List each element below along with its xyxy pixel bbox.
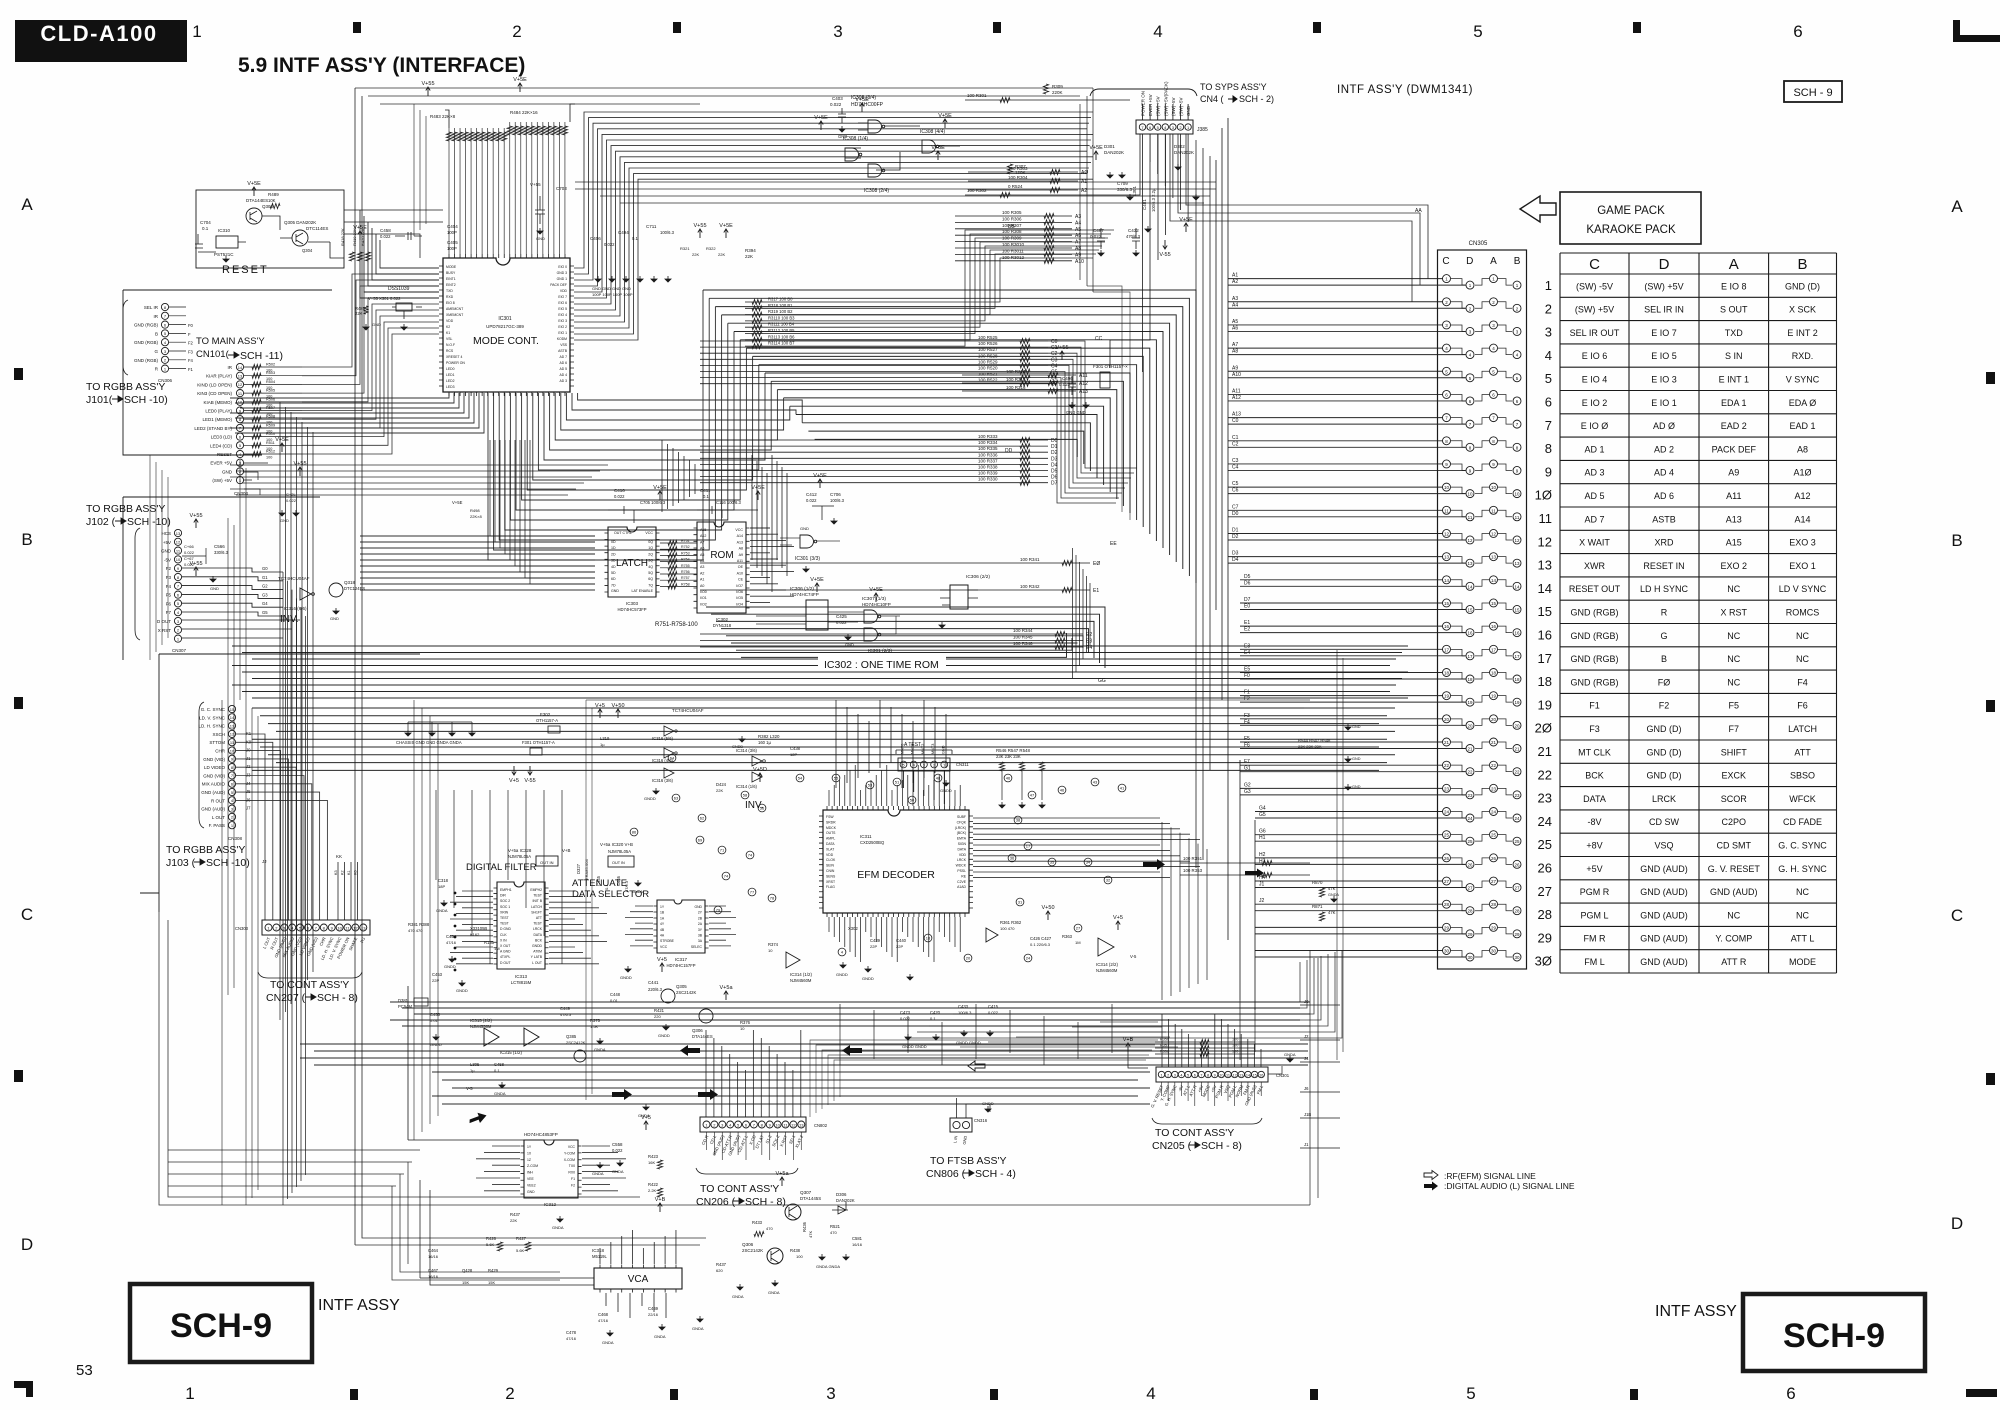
svg-text:10K: 10K bbox=[268, 198, 276, 203]
svg-text:64: 64 bbox=[670, 756, 675, 761]
svg-text:BB: BB bbox=[1008, 224, 1015, 230]
svg-text:0.1: 0.1 bbox=[703, 494, 709, 499]
svg-text:F1: F1 bbox=[571, 1177, 575, 1181]
svg-text:19: 19 bbox=[1444, 694, 1450, 699]
svg-text:22: 22 bbox=[1491, 763, 1497, 768]
svg-text:R423: R423 bbox=[648, 1154, 659, 1159]
svg-text:2: 2 bbox=[1179, 125, 1182, 130]
svg-text:GND (AUD): GND (AUD) bbox=[1640, 934, 1688, 944]
svg-text:V-55: V-55 bbox=[1159, 252, 1170, 258]
svg-text:C2VE: C2VE bbox=[957, 880, 967, 884]
svg-text:J7: J7 bbox=[246, 806, 251, 811]
svg-text:GNDA GNDA: GNDA GNDA bbox=[816, 1264, 840, 1269]
svg-text:21: 21 bbox=[1444, 740, 1450, 745]
CN802 bracket bbox=[696, 1168, 798, 1174]
svg-text:25: 25 bbox=[1514, 839, 1520, 844]
svg-text:AD 3: AD 3 bbox=[559, 379, 567, 383]
svg-text:V+5E: V+5E bbox=[653, 485, 667, 491]
svg-text:V+5E: V+5E bbox=[869, 587, 883, 593]
wire bus feeding CN105 bbox=[1228, 279, 1466, 957]
svg-text:EIO 2: EIO 2 bbox=[558, 325, 567, 329]
long verticals left structure bbox=[355, 88, 706, 1245]
vertical bundle left of IC301 going down bbox=[280, 402, 313, 1020]
CN303 bracket bbox=[258, 972, 362, 978]
svg-text:J2: J2 bbox=[1259, 898, 1265, 904]
svg-text:TO CONT ASS'Y: TO CONT ASS'Y bbox=[270, 979, 349, 991]
svg-text:3: 3 bbox=[1445, 323, 1448, 328]
svg-text:26: 26 bbox=[1514, 862, 1520, 867]
IC303 LATCH body bbox=[608, 527, 656, 597]
svg-text:6: 6 bbox=[1492, 392, 1495, 397]
svg-text:FM L: FM L bbox=[1584, 957, 1605, 967]
svg-text:E3: E3 bbox=[1086, 639, 1092, 645]
svg-text:R751: R751 bbox=[681, 539, 690, 543]
svg-text:2: 2 bbox=[177, 628, 180, 633]
svg-text:1: 1 bbox=[1445, 277, 1448, 282]
svg-text:L301: L301 bbox=[1132, 185, 1137, 196]
svg-text:2.2K: 2.2K bbox=[648, 1188, 657, 1193]
svg-text:MIX AUDIO: MIX AUDIO bbox=[202, 782, 226, 787]
svg-text:14: 14 bbox=[1538, 581, 1552, 596]
svg-text:IC318: IC318 bbox=[592, 1248, 605, 1253]
power arrows above top bus bbox=[426, 87, 430, 96]
svg-text:DATA: DATA bbox=[957, 847, 966, 851]
svg-text:HD74HC4853FP: HD74HC4853FP bbox=[524, 1132, 558, 1137]
vertical bundle between IC301 and latch bbox=[490, 440, 595, 584]
svg-text:G3: G3 bbox=[262, 592, 268, 597]
svg-text:25: 25 bbox=[1467, 839, 1473, 844]
svg-text:100 R351: 100 R351 bbox=[1183, 856, 1203, 861]
connector CN307 bbox=[174, 529, 181, 536]
svg-text:21: 21 bbox=[1491, 740, 1497, 745]
svg-text:V+5a IC320 V+B: V+5a IC320 V+B bbox=[600, 842, 633, 847]
svg-text:ROM: ROM bbox=[710, 550, 733, 561]
svg-text:5.6K: 5.6K bbox=[516, 1248, 525, 1253]
svg-text:F2: F2 bbox=[188, 341, 194, 346]
wire hooks top right corner of schematic bbox=[1087, 286, 1130, 520]
svg-text:Y-COM: Y-COM bbox=[564, 1151, 575, 1155]
svg-text:100: 100 bbox=[266, 456, 272, 460]
svg-text:2Q: 2Q bbox=[648, 552, 653, 556]
svg-text:12: 12 bbox=[1444, 531, 1450, 536]
svg-text:18P: 18P bbox=[438, 884, 445, 889]
svg-text:GNDA: GNDA bbox=[768, 1290, 780, 1295]
svg-text:V+5: V+5 bbox=[1113, 915, 1123, 921]
svg-text:29: 29 bbox=[1538, 930, 1552, 945]
resistor arrays R483 R484 bbox=[446, 132, 451, 141]
svg-text:20: 20 bbox=[1514, 723, 1520, 728]
svg-text:2: 2 bbox=[1492, 300, 1495, 305]
svg-text:V+5E: V+5E bbox=[813, 473, 827, 479]
transistor Q503 bbox=[246, 208, 262, 224]
svg-text:X33105B: X33105B bbox=[470, 926, 487, 931]
svg-text:OUT CTRL: OUT CTRL bbox=[614, 531, 632, 535]
svg-text:+5V: +5V bbox=[1586, 864, 1602, 874]
svg-text:K0: K0 bbox=[246, 739, 252, 744]
svg-text:A11: A11 bbox=[737, 559, 743, 563]
svg-text:100P 100P 100P 100P: 100P 100P 100P 100P bbox=[592, 292, 633, 297]
svg-text:CN308: CN308 bbox=[228, 836, 243, 841]
svg-text:GND (D): GND (D) bbox=[1647, 771, 1682, 781]
svg-text:IC301: IC301 bbox=[498, 316, 512, 322]
svg-text:C446: C446 bbox=[616, 875, 621, 886]
svg-text:2: 2 bbox=[1445, 300, 1448, 305]
grid row ticks left edge bbox=[14, 368, 23, 380]
svg-text:26: 26 bbox=[1467, 862, 1473, 867]
wire trunk verticals right side bbox=[1216, 118, 1228, 940]
svg-text::DIGITAL AUDIO (L) SIGNAL: :DIGITAL AUDIO (L) SIGNAL LINE bbox=[1444, 1181, 1575, 1191]
svg-text:NJM78L05A: NJM78L05A bbox=[508, 854, 531, 859]
svg-text:SCH -10): SCH -10) bbox=[124, 394, 168, 406]
svg-text:4: 4 bbox=[729, 1122, 732, 1127]
svg-text:V+5D: V+5D bbox=[753, 767, 767, 773]
svg-text:IC302 : ONE TIME ROM: IC302 : ONE TIME ROM bbox=[824, 659, 939, 671]
svg-text:OUT IN: OUT IN bbox=[612, 861, 625, 865]
svg-text:0.1: 0.1 bbox=[202, 226, 209, 231]
svg-text:E IO 3: E IO 3 bbox=[1651, 375, 1677, 385]
svg-text:NJM4560M: NJM4560M bbox=[1096, 968, 1118, 973]
svg-text:D1: D1 bbox=[1051, 444, 1058, 450]
svg-text:GND (D): GND (D) bbox=[1785, 281, 1820, 291]
svg-text:TEST: TEST bbox=[533, 894, 542, 898]
svg-text:CN207 (: CN207 ( bbox=[266, 992, 306, 1004]
svg-text:C404: C404 bbox=[447, 224, 458, 229]
wires right of EFM to trunk bbox=[973, 818, 1200, 877]
svg-text:TXD: TXD bbox=[1725, 328, 1744, 338]
svg-text:IC314 (1/6): IC314 (1/6) bbox=[736, 784, 758, 789]
svg-text:GND (AUD): GND (AUD) bbox=[1710, 887, 1758, 897]
svg-text:F2: F2 bbox=[166, 566, 172, 571]
svg-text:0.1: 0.1 bbox=[604, 884, 609, 890]
svg-text:EE: EE bbox=[1110, 541, 1117, 547]
svg-text:G. C. SYNC: G. C. SYNC bbox=[201, 707, 226, 712]
svg-text:ASTB: ASTB bbox=[558, 349, 568, 353]
svg-text:A12: A12 bbox=[1795, 491, 1811, 501]
svg-text:1M: 1M bbox=[1075, 940, 1081, 945]
svg-text:5: 5 bbox=[1466, 1384, 1475, 1403]
svg-text:LD H SYNC: LD H SYNC bbox=[1640, 584, 1689, 594]
svg-text:12P: 12P bbox=[790, 752, 797, 757]
svg-text:C440: C440 bbox=[896, 938, 907, 943]
svg-text:G: G bbox=[154, 349, 158, 354]
svg-text:XWR: XWR bbox=[1584, 561, 1605, 571]
connector CN105 pin circles and stagger wires bbox=[1443, 275, 1451, 283]
connector CN105 body bbox=[1438, 250, 1527, 969]
svg-text:22: 22 bbox=[1514, 770, 1520, 775]
svg-text:V+5: V+5 bbox=[657, 957, 667, 963]
svg-text:4: 4 bbox=[1146, 1384, 1155, 1403]
svg-text:XRESET 4: XRESET 4 bbox=[446, 355, 462, 359]
svg-text:48: 48 bbox=[936, 776, 941, 781]
IC313 digital filter body bbox=[497, 882, 545, 969]
svg-text:8: 8 bbox=[1469, 445, 1472, 450]
svg-text:29: 29 bbox=[1467, 932, 1473, 937]
svg-text:15K: 15K bbox=[488, 1280, 495, 1285]
svg-text:C458: C458 bbox=[380, 228, 391, 233]
wires left of IC313 bbox=[450, 891, 493, 964]
svg-text:47: 47 bbox=[1030, 793, 1035, 798]
svg-text:R544 R547 R548: R544 R547 R548 bbox=[1298, 738, 1331, 743]
svg-text:GND: GND bbox=[1352, 785, 1361, 789]
svg-text:100 R339: 100 R339 bbox=[978, 471, 998, 476]
svg-text:C439: C439 bbox=[870, 938, 881, 943]
svg-text:3: 3 bbox=[231, 806, 234, 811]
svg-text:1Z: 1Z bbox=[527, 1158, 531, 1162]
svg-text:FSW: FSW bbox=[826, 815, 834, 819]
svg-text:(SW) -5V: (SW) -5V bbox=[1576, 281, 1613, 291]
svg-text:GND: GND bbox=[536, 236, 545, 241]
svg-text:A7: A7 bbox=[700, 540, 704, 544]
svg-text:R361 R362: R361 R362 bbox=[1000, 920, 1022, 925]
svg-text:20: 20 bbox=[1467, 723, 1473, 728]
svg-text:LED3: LED3 bbox=[446, 385, 455, 389]
svg-text:25: 25 bbox=[1538, 837, 1552, 852]
svg-text:R437: R437 bbox=[510, 1212, 521, 1217]
svg-text:L OUT: L OUT bbox=[212, 815, 225, 820]
svg-text:BUSY: BUSY bbox=[446, 271, 456, 275]
svg-text:CN4 (: CN4 ( bbox=[1200, 94, 1224, 104]
svg-text:9: 9 bbox=[1516, 468, 1519, 473]
CN304 bottom wires bbox=[244, 463, 268, 495]
border frame corner mark bottom-right bbox=[1966, 1389, 1997, 1397]
svg-text:100 R333: 100 R333 bbox=[978, 434, 998, 439]
svg-text:-5V: -5V bbox=[164, 557, 171, 562]
svg-text:DAN202K: DAN202K bbox=[1174, 150, 1194, 155]
svg-text:AD 5: AD 5 bbox=[559, 367, 567, 371]
svg-text:A3: A3 bbox=[700, 565, 704, 569]
svg-text:12: 12 bbox=[1467, 538, 1473, 543]
svg-text:SCH - 8): SCH - 8) bbox=[317, 992, 358, 1004]
svg-text:PGM R: PGM R bbox=[1580, 887, 1610, 897]
svg-text:TX0: TX0 bbox=[569, 1164, 575, 1168]
mid bundle under IC301 to left bbox=[230, 393, 484, 433]
svg-text:10: 10 bbox=[1219, 1073, 1223, 1077]
svg-text:12: 12 bbox=[238, 382, 243, 387]
svg-text:F1: F1 bbox=[1589, 701, 1600, 711]
svg-text:E IO 8: E IO 8 bbox=[1721, 281, 1747, 291]
svg-text:SHIFT: SHIFT bbox=[1721, 747, 1748, 757]
svg-text:J103 (: J103 ( bbox=[166, 857, 196, 869]
svg-text:GND: GND bbox=[800, 526, 809, 531]
svg-text:C6: C6 bbox=[1232, 488, 1239, 494]
svg-text:7D: 7D bbox=[611, 583, 616, 587]
staircase into CN301 wires bbox=[960, 1022, 1178, 1047]
svg-text:7: 7 bbox=[1469, 422, 1472, 427]
svg-text:62: 62 bbox=[700, 816, 705, 821]
svg-text:A8: A8 bbox=[1232, 349, 1238, 355]
svg-text:TEST: TEST bbox=[500, 916, 509, 920]
svg-text:C7: C7 bbox=[1232, 504, 1239, 510]
wires ROM right side bbox=[750, 528, 794, 602]
svg-text:100/6.3: 100/6.3 bbox=[660, 230, 675, 235]
svg-text:100: 100 bbox=[1232, 1038, 1238, 1042]
svg-text:GND: GND bbox=[161, 549, 172, 554]
svg-text:100 R522: 100 R522 bbox=[978, 378, 998, 383]
svg-text:C704: C704 bbox=[200, 220, 211, 225]
svg-text:19: 19 bbox=[1491, 694, 1497, 699]
svg-text:ATT L: ATT L bbox=[1791, 934, 1815, 944]
svg-text:F301 OTH1157-A: F301 OTH1157-A bbox=[522, 740, 555, 745]
svg-text:POWER ON: POWER ON bbox=[446, 361, 465, 365]
svg-text:30: 30 bbox=[1491, 949, 1497, 954]
svg-text:7: 7 bbox=[177, 584, 180, 589]
svg-text:IC316 (6/6): IC316 (6/6) bbox=[284, 606, 307, 611]
svg-text:KODM: KODM bbox=[557, 337, 567, 341]
svg-text:LATCH: LATCH bbox=[616, 558, 648, 569]
svg-text:V+55: V+55 bbox=[422, 81, 435, 87]
wire bus HH long horizontals bbox=[252, 708, 1395, 770]
svg-text:V-5: V-5 bbox=[1130, 954, 1137, 959]
V+5E arrows near gates bbox=[860, 103, 864, 112]
svg-text:24: 24 bbox=[1026, 956, 1031, 961]
svg-text:24: 24 bbox=[1491, 810, 1497, 815]
svg-text:C497: C497 bbox=[1093, 228, 1104, 233]
svg-text:18: 18 bbox=[1491, 670, 1497, 675]
svg-text:46: 46 bbox=[1060, 788, 1065, 793]
svg-text:GNDD: GNDD bbox=[456, 988, 468, 993]
svg-text:VSL: VSL bbox=[446, 337, 453, 341]
svg-text:2: 2 bbox=[1516, 306, 1519, 311]
svg-text:C5: C5 bbox=[1232, 481, 1239, 487]
svg-text:6: 6 bbox=[239, 434, 242, 439]
svg-text:5D: 5D bbox=[611, 571, 616, 575]
svg-text:R136: R136 bbox=[484, 940, 495, 945]
svg-text:J1: J1 bbox=[246, 756, 251, 761]
svg-text:77: 77 bbox=[750, 890, 755, 895]
svg-text:D6: D6 bbox=[1051, 475, 1058, 481]
svg-text:EVER +5V: EVER +5V bbox=[1148, 94, 1153, 116]
svg-text:0.01: 0.01 bbox=[430, 1018, 439, 1023]
svg-text:CN305: CN305 bbox=[1469, 241, 1488, 247]
svg-text:NC: NC bbox=[1727, 631, 1740, 641]
svg-text:100 R353: 100 R353 bbox=[1183, 868, 1203, 873]
svg-text:JJ: JJ bbox=[262, 859, 267, 864]
svg-text:LATCH: LATCH bbox=[531, 905, 542, 909]
svg-text:GND (AUD): GND (AUD) bbox=[201, 807, 225, 812]
svg-text:1: 1 bbox=[1545, 278, 1552, 293]
svg-text:4: 4 bbox=[1469, 353, 1472, 358]
svg-text:C318: C318 bbox=[438, 878, 449, 883]
svg-text:22K: 22K bbox=[745, 254, 753, 259]
svg-text:DTA1445S: DTA1445S bbox=[800, 1196, 821, 1201]
connector CN304 bbox=[236, 363, 243, 370]
svg-text:A13: A13 bbox=[737, 540, 743, 544]
trunk from J385 region down bbox=[1196, 140, 1210, 868]
svg-text:C5: C5 bbox=[1051, 370, 1058, 376]
reset circuit box bbox=[196, 190, 344, 268]
svg-text:INTF ASSY: INTF ASSY bbox=[318, 1297, 400, 1314]
svg-text:8: 8 bbox=[231, 765, 234, 770]
svg-text:100 R305: 100 R305 bbox=[1002, 210, 1022, 215]
svg-text:18: 18 bbox=[1538, 674, 1552, 689]
svg-text:100/6.3: 100/6.3 bbox=[830, 498, 845, 503]
svg-text:8: 8 bbox=[1445, 439, 1448, 444]
svg-text:GND (RGB): GND (RGB) bbox=[134, 323, 159, 328]
svg-text:1: 1 bbox=[164, 366, 167, 371]
svg-text:V+5E: V+5E bbox=[247, 181, 261, 187]
resistor row group B0-B7 bbox=[745, 301, 860, 303]
svg-text:VEE: VEE bbox=[527, 1177, 535, 1181]
svg-text:3Q: 3Q bbox=[648, 559, 653, 563]
svg-text:D4: D4 bbox=[1051, 462, 1058, 468]
svg-text:Q304: Q304 bbox=[302, 248, 313, 253]
svg-text:L319: L319 bbox=[600, 736, 610, 741]
svg-text:100 R337: 100 R337 bbox=[978, 458, 998, 463]
svg-text:C464: C464 bbox=[428, 1248, 439, 1253]
svg-text:100 R301: 100 R301 bbox=[967, 93, 987, 98]
svg-text:4: 4 bbox=[291, 925, 294, 930]
svg-text:23: 23 bbox=[1514, 793, 1520, 798]
svg-text:4D: 4D bbox=[611, 565, 616, 569]
svg-text:E2: E2 bbox=[1244, 627, 1250, 633]
svg-text:GNDA: GNDA bbox=[654, 1334, 666, 1339]
svg-text:SRDR: SRDR bbox=[826, 820, 836, 824]
svg-text:15: 15 bbox=[1444, 601, 1450, 606]
svg-text:220K: 220K bbox=[1052, 90, 1063, 95]
svg-text:SIGN: SIGN bbox=[958, 842, 967, 846]
svg-text:100 R3012: 100 R3012 bbox=[1002, 255, 1025, 260]
svg-text:7: 7 bbox=[1516, 422, 1519, 427]
svg-text:1: 1 bbox=[267, 925, 270, 930]
inner box around EFM section bbox=[586, 700, 1310, 1100]
svg-text:R437: R437 bbox=[716, 1262, 727, 1267]
svg-text:AD 7: AD 7 bbox=[1584, 514, 1604, 524]
svg-text:2: 2 bbox=[239, 469, 242, 474]
svg-text:EINT2: EINT2 bbox=[446, 283, 456, 287]
svg-text:17: 17 bbox=[1491, 647, 1497, 652]
svg-text:SEIN: SEIN bbox=[826, 864, 834, 868]
resistor row group D0-D7 bbox=[700, 439, 1048, 441]
svg-text:C426 C427: C426 C427 bbox=[1030, 936, 1052, 941]
left mid vertical fillers bbox=[240, 460, 258, 1205]
svg-text:GNDA: GNDA bbox=[592, 1171, 604, 1176]
svg-text:GND: GND bbox=[210, 586, 219, 591]
svg-text:C406: C406 bbox=[590, 236, 601, 241]
svg-text:1: 1 bbox=[185, 1384, 194, 1403]
svg-text:4: 4 bbox=[841, 950, 844, 955]
svg-text:AD 4: AD 4 bbox=[1654, 468, 1674, 478]
svg-text:OTH1157-A: OTH1157-A bbox=[536, 718, 558, 723]
svg-text:RCS: RCS bbox=[446, 349, 454, 353]
svg-text:9: 9 bbox=[231, 757, 234, 762]
svg-text:MODE CONT.: MODE CONT. bbox=[473, 335, 539, 347]
GNDA left of CN802 bbox=[643, 1104, 649, 1110]
svg-text:53: 53 bbox=[76, 1362, 93, 1379]
svg-text:D4: D4 bbox=[1232, 557, 1239, 563]
reset block wiring bbox=[198, 216, 344, 258]
connector CN316 bbox=[950, 1118, 972, 1132]
svg-text:Q318: Q318 bbox=[344, 580, 356, 585]
svg-text:B: B bbox=[1661, 654, 1667, 664]
SCH-9 box bottom-right bbox=[1743, 1294, 1925, 1371]
connector CN303 bbox=[262, 920, 370, 935]
svg-text:X WAIT: X WAIT bbox=[1579, 538, 1610, 548]
svg-text:LED1 (MEMO): LED1 (MEMO) bbox=[202, 417, 232, 422]
svg-text:R422: R422 bbox=[648, 1182, 659, 1187]
svg-text:0Q: 0Q bbox=[648, 540, 653, 544]
wires gates region bbox=[756, 538, 900, 634]
svg-text:330/6.3: 330/6.3 bbox=[214, 550, 229, 555]
svg-text:16K: 16K bbox=[648, 1160, 655, 1165]
svg-text:22K: 22K bbox=[716, 788, 723, 793]
svg-text:220: 220 bbox=[654, 1014, 661, 1019]
svg-text:0.022: 0.022 bbox=[612, 1148, 623, 1153]
svg-text:TO SYPS ASS'Y: TO SYPS ASS'Y bbox=[1200, 82, 1267, 92]
svg-text:AD Ø: AD Ø bbox=[1653, 421, 1675, 431]
svg-text:28: 28 bbox=[1538, 907, 1552, 922]
svg-text:2Y: 2Y bbox=[698, 911, 703, 915]
transistor Q306 bottom bbox=[767, 1248, 783, 1264]
